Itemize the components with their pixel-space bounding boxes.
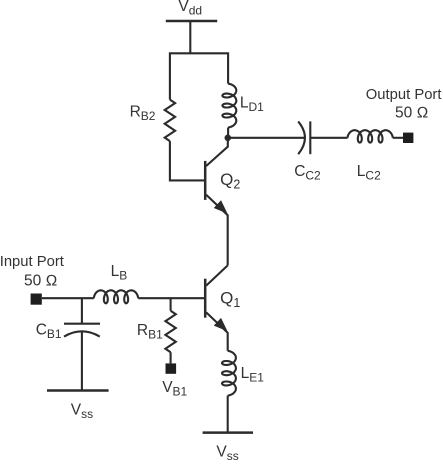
inductor LB (94, 290, 138, 303)
capacitor CB1 straight plate (64, 323, 100, 325)
wire LE1 to Vss (227, 396, 229, 433)
inductor LD1 (222, 84, 236, 128)
node collector junction dot (225, 135, 232, 142)
transistor Q1 collector (206, 265, 228, 285)
wire LD1 to node (227, 128, 229, 138)
wire Vdd stub down (189, 21, 191, 53)
ground bar Vss left (47, 389, 109, 392)
capacitor CB1 curved plate (64, 331, 100, 336)
svg-text:Vdd: Vdd (178, 0, 202, 17)
inductor LC2 (348, 130, 393, 142)
inductor LE1 (222, 351, 236, 396)
svg-text:50 Ω: 50 Ω (24, 272, 58, 289)
wire RB1 branch down (170, 298, 172, 311)
capacitor CC2 straight plate (309, 121, 311, 154)
transistor Q1 base bar (204, 279, 207, 318)
wire LC2 to output terminal (393, 137, 403, 139)
wire RB2 to Q2 base (170, 141, 204, 180)
resistor RB2 (165, 100, 175, 142)
input terminal square (31, 294, 42, 305)
output terminal square (403, 133, 413, 143)
transistor Q1 emitter (206, 312, 228, 350)
transistor Q1 emitter arrow (215, 319, 227, 331)
transistor Q2 emitter arrow (215, 201, 227, 213)
svg-text:Output Port: Output Port (366, 87, 442, 103)
capacitor CC2 curved plate (298, 121, 305, 154)
wire LB to Q1 base (138, 297, 204, 299)
wire node to CC2 (228, 137, 304, 139)
wire CB1 branch down (81, 298, 83, 324)
transistor Q2 base bar (204, 161, 207, 200)
transistor Q2 collector (206, 140, 228, 166)
transistor Q2 emitter (206, 195, 228, 266)
power rail Vdd bar (166, 20, 217, 23)
terminal square VB1 (166, 363, 177, 373)
wire CB1 to Vss (81, 332, 83, 391)
wire CC2 to LC2 (310, 137, 347, 139)
resistor RB1 (165, 311, 175, 353)
wire top rail horizontal (170, 53, 228, 99)
wire input to LB (42, 297, 94, 299)
ground bar Vss bottom (203, 431, 253, 434)
svg-text:50 Ω: 50 Ω (395, 104, 429, 121)
svg-text:Input Port: Input Port (0, 254, 64, 270)
wire RB1 to VB1 terminal (170, 352, 172, 363)
